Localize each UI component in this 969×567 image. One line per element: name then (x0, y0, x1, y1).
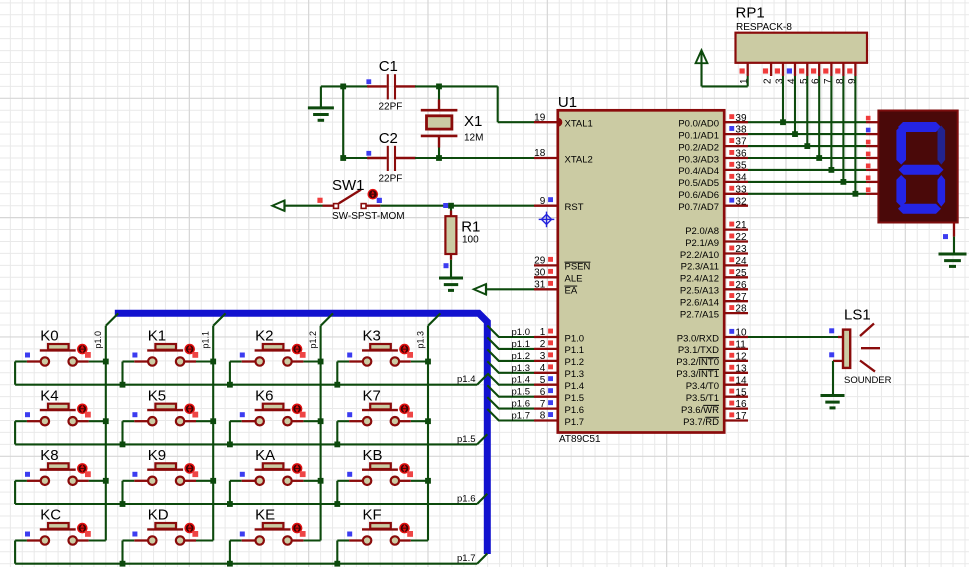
svg-text:P1.2: P1.2 (565, 357, 585, 368)
svg-text:22PF: 22PF (379, 102, 403, 113)
svg-text:18: 18 (534, 148, 546, 159)
svg-text:28: 28 (735, 304, 747, 315)
svg-text:p1.0: p1.0 (512, 327, 531, 338)
svg-text:25: 25 (735, 268, 747, 279)
svg-text:34: 34 (735, 173, 747, 184)
svg-text:P0.1/AD1: P0.1/AD1 (678, 130, 719, 141)
svg-text:7: 7 (540, 399, 546, 410)
svg-text:KE: KE (255, 507, 275, 524)
svg-text:10: 10 (735, 328, 747, 339)
svg-text:R1: R1 (461, 219, 480, 236)
svg-text:p1.3: p1.3 (415, 331, 425, 349)
svg-text:KA: KA (255, 447, 275, 464)
svg-text:P2.5/A13: P2.5/A13 (680, 286, 719, 297)
svg-text:p1.1: p1.1 (512, 339, 531, 350)
svg-text:P2.6/A14: P2.6/A14 (680, 298, 719, 309)
svg-text:35: 35 (735, 161, 747, 172)
svg-text:37: 37 (735, 137, 747, 148)
svg-text:p1.6: p1.6 (457, 494, 476, 505)
svg-text:13: 13 (735, 363, 747, 374)
svg-text:P3.3/INT1: P3.3/INT1 (676, 369, 719, 380)
svg-text:38: 38 (735, 125, 747, 136)
svg-text:12: 12 (735, 352, 747, 363)
svg-text:P1.5: P1.5 (565, 393, 585, 404)
svg-text:30: 30 (534, 268, 546, 279)
svg-text:p1.4: p1.4 (512, 375, 531, 386)
svg-text:p1.1: p1.1 (201, 331, 211, 349)
svg-text:K8: K8 (40, 447, 58, 464)
svg-text:P2.1/A9: P2.1/A9 (685, 238, 719, 249)
svg-text:31: 31 (534, 280, 546, 291)
svg-text:P3.2/INT0: P3.2/INT0 (676, 357, 719, 368)
svg-text:RESPACK-8: RESPACK-8 (736, 22, 792, 33)
svg-text:1: 1 (540, 327, 546, 338)
svg-text:AT89C51: AT89C51 (559, 434, 601, 445)
svg-text:P1.4: P1.4 (565, 381, 585, 392)
svg-text:C2: C2 (379, 130, 398, 147)
svg-text:P1.6: P1.6 (565, 405, 585, 416)
svg-text:P1.7: P1.7 (565, 417, 585, 428)
svg-text:RST: RST (565, 202, 584, 213)
svg-text:SW-SPST-MOM: SW-SPST-MOM (332, 211, 405, 222)
svg-text:KD: KD (148, 507, 169, 524)
svg-text:P2.2/A10: P2.2/A10 (680, 250, 719, 261)
svg-text:P3.5/T1: P3.5/T1 (686, 393, 719, 404)
svg-text:P0.5/AD5: P0.5/AD5 (678, 178, 719, 189)
svg-text:X1: X1 (464, 113, 482, 130)
svg-text:P1.3: P1.3 (565, 369, 585, 380)
svg-text:EA: EA (565, 286, 578, 297)
svg-text:P0.4/AD4: P0.4/AD4 (678, 166, 719, 177)
svg-text:U1: U1 (558, 94, 577, 111)
svg-text:15: 15 (735, 387, 747, 398)
svg-text:29: 29 (534, 256, 546, 267)
svg-text:p1.3: p1.3 (512, 363, 531, 374)
svg-text:p1.4: p1.4 (457, 374, 476, 385)
svg-text:p1.2: p1.2 (308, 331, 318, 349)
svg-text:K1: K1 (148, 328, 166, 345)
svg-text:P3.4/T0: P3.4/T0 (686, 381, 719, 392)
svg-text:P0.6/AD6: P0.6/AD6 (678, 190, 719, 201)
svg-text:PSEN: PSEN (565, 262, 591, 273)
svg-text:6: 6 (540, 387, 546, 398)
svg-text:ALE: ALE (565, 274, 583, 285)
svg-text:K0: K0 (40, 328, 58, 345)
svg-text:5: 5 (540, 375, 546, 386)
svg-text:P3.6/WR: P3.6/WR (681, 405, 719, 416)
svg-text:P0.3/AD3: P0.3/AD3 (678, 154, 719, 165)
svg-text:33: 33 (735, 184, 747, 195)
svg-text:3: 3 (540, 351, 546, 362)
svg-text:SW1: SW1 (332, 177, 365, 194)
svg-text:KF: KF (363, 507, 382, 524)
svg-text:P2.3/A11: P2.3/A11 (681, 262, 719, 273)
svg-text:p1.7: p1.7 (512, 411, 531, 422)
svg-text:P3.0/RXD: P3.0/RXD (677, 333, 719, 344)
svg-text:8: 8 (540, 411, 546, 422)
svg-text:K4: K4 (40, 387, 58, 404)
svg-text:P2.0/A8: P2.0/A8 (685, 226, 719, 237)
svg-text:C1: C1 (379, 58, 398, 75)
svg-text:p1.7: p1.7 (457, 553, 476, 564)
svg-text:P1.1: P1.1 (565, 345, 585, 356)
svg-text:XTAL2: XTAL2 (565, 154, 593, 165)
svg-text:P3.1/TXD: P3.1/TXD (678, 345, 719, 356)
svg-text:16: 16 (735, 399, 747, 410)
svg-text:K7: K7 (363, 387, 381, 404)
svg-text:p1.2: p1.2 (512, 351, 531, 362)
svg-text:P2.4/A12: P2.4/A12 (680, 274, 719, 285)
svg-text:2: 2 (540, 339, 546, 350)
svg-text:2: 2 (763, 78, 774, 84)
svg-text:p1.5: p1.5 (457, 434, 476, 445)
svg-text:KB: KB (363, 447, 383, 464)
svg-text:21: 21 (735, 220, 747, 231)
svg-text:K2: K2 (255, 328, 273, 345)
svg-text:LS1: LS1 (844, 307, 871, 324)
svg-text:22: 22 (735, 232, 747, 243)
svg-text:RP1: RP1 (736, 4, 765, 21)
svg-text:36: 36 (735, 149, 747, 160)
svg-text:32: 32 (735, 196, 747, 207)
svg-text:P0.7/AD7: P0.7/AD7 (678, 202, 719, 213)
svg-text:100: 100 (462, 235, 479, 246)
svg-text:22PF: 22PF (379, 173, 403, 184)
svg-text:KC: KC (40, 507, 61, 524)
svg-text:P1.0: P1.0 (565, 333, 585, 344)
svg-text:p1.6: p1.6 (512, 399, 531, 410)
svg-text:4: 4 (540, 363, 546, 374)
svg-text:9: 9 (540, 196, 546, 207)
svg-text:SOUNDER: SOUNDER (844, 375, 892, 386)
svg-text:K5: K5 (148, 387, 166, 404)
svg-text:K9: K9 (148, 447, 166, 464)
svg-text:24: 24 (735, 256, 747, 267)
svg-text:27: 27 (735, 292, 747, 303)
svg-text:26: 26 (735, 280, 747, 291)
svg-text:K6: K6 (255, 387, 273, 404)
svg-text:17: 17 (735, 411, 747, 422)
svg-text:P2.7/A15: P2.7/A15 (680, 309, 719, 320)
svg-text:p1.0: p1.0 (93, 331, 103, 349)
svg-text:19: 19 (534, 112, 546, 123)
svg-text:P0.2/AD2: P0.2/AD2 (678, 142, 719, 153)
svg-text:14: 14 (735, 375, 747, 386)
svg-text:XTAL1: XTAL1 (565, 119, 593, 130)
svg-text:P0.0/AD0: P0.0/AD0 (678, 119, 719, 130)
svg-text:23: 23 (735, 244, 747, 255)
svg-text:P3.7/RD: P3.7/RD (683, 417, 719, 428)
svg-text:11: 11 (735, 340, 746, 351)
svg-text:p1.5: p1.5 (512, 387, 531, 398)
svg-text:K3: K3 (363, 328, 381, 345)
svg-text:39: 39 (735, 113, 747, 124)
svg-text:12M: 12M (464, 132, 483, 143)
